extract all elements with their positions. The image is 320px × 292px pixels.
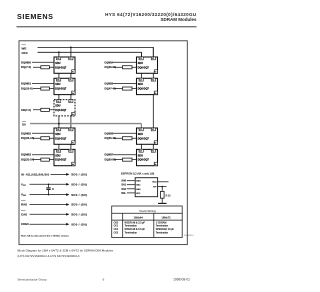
svg-text:DQ(31-24): DQ(31-24) [21,158,34,162]
svg-text:Clock Wiring: Clock Wiring [139,209,156,213]
svg-text:A0 - A11, (A12), BA0, BA1: A0 - A11, (A12), BA0, BA1 [21,173,50,176]
svg-text:DQ0-DQ7: DQ0-DQ7 [55,88,67,91]
label WE [22,44,26,46]
wire DQ with series resistor to U2 [33,88,54,90]
SDRAM chip U7 [137,128,158,145]
svg-text:SDA: SDA [152,181,157,184]
svg-text:Block Diagram for 16M x 64/72: Block Diagram for 16M x 64/72 & 32M x 64… [18,248,114,252]
svg-text:DQMB3: DQMB3 [21,153,32,157]
wire VCC to all SDRAMs [30,183,67,185]
resistor on DQ line of U2 [41,87,50,90]
svg-text:6: 6 [103,278,105,282]
svg-text:Note: CB is only used in the x: Note: CB is only used in the x 72 ECC ve… [21,235,70,238]
svg-text:DQ(15-8): DQ(15-8) [21,87,33,91]
svg-text:DQ0-DQ7: DQ0-DQ7 [138,137,150,140]
ground for R [161,198,163,203]
svg-text:CK2: CK2 [114,229,119,231]
wire CK0 bus (top line 2) [38,52,142,57]
svg-text:C: C [52,187,54,191]
resistor R (WP pull-down) [161,187,163,192]
wire DQM to U3 [32,132,54,134]
svg-text:SD0 / (S0): SD0 / (S0) [71,222,87,226]
svg-text:16Mx64: 16Mx64 [134,215,144,219]
svg-text:SDU: SDU [55,62,60,65]
svg-text:EEPROM 1(2,4)K x only 1(8): EEPROM 1(2,4)K x only 1(8) [121,171,154,175]
svg-text:CB(7-0): CB(7-0) [21,108,31,112]
svg-text:Bx: Bx [72,72,74,74]
svg-text:SDU: SDU [138,83,143,86]
svg-text:SA1: SA1 [121,184,126,187]
wire DQ with series resistor to U9 (ECC, dashed) [33,109,54,111]
svg-text:WP: WP [153,187,157,189]
wire DQ with series resistor to U7 [114,137,137,139]
svg-text:Termination: Termination [125,231,138,234]
svg-text:DQ(7-0): DQ(7-0) [21,65,31,69]
resistor on DQ line of U3 [41,137,50,140]
junction dot on CK0 bus [58,51,60,53]
svg-text:DQ(47-40): DQ(47-40) [105,88,116,91]
wire VSS to all SDRAMs [30,194,67,196]
svg-text:VSS: VSS [21,193,26,198]
wire DQM to U4 [32,154,54,156]
svg-text:SDU: SDU [55,83,60,86]
svg-text:SD0 / (S0): SD0 / (S0) [71,193,87,197]
resistor on DQ line of U5 [123,66,133,69]
svg-text:Bx: Bx [155,72,157,74]
svg-text:Bx: Bx [72,143,74,145]
svg-text:DQ0-DQ7: DQ0-DQ7 [138,159,150,162]
wire DQM to U8 [113,154,137,156]
svg-text:SD0 / (S0): SD0 / (S0) [71,173,87,177]
junction dot on S0 line [58,123,60,125]
wire DQM to U5 [113,61,137,63]
svg-text:DQ0-DQ7: DQ0-DQ7 [55,137,67,140]
svg-text:SDU: SDU [138,154,143,157]
junction dot on WE bus [70,47,72,49]
svg-text:SD0 / (S0): SD0 / (S0) [71,203,87,207]
wire DQM to U2 [32,83,54,85]
svg-text:DQMB4: DQMB4 [105,61,114,64]
wire DQ with series resistor to U8 [114,159,137,161]
svg-text:Bx: Bx [72,164,74,166]
wire vertical right column pin chain 2 [152,47,154,150]
wire RAS to all SDRAMs [30,204,67,206]
wire DQM to U6 [113,83,137,85]
SDRAM chip U1 [54,57,75,74]
svg-text:Bx: Bx [72,93,74,95]
svg-text:CAS: CAS [21,212,27,216]
svg-text:SA0: SA0 [121,180,126,183]
svg-text:SCL: SCL [121,192,126,195]
wire DQ with series resistor to U1 [33,66,54,68]
svg-text:CK0: CK0 [114,222,119,224]
svg-text:RAS: RAS [21,203,27,207]
svg-text:DQMB0: DQMB0 [21,60,32,64]
EEPROM U10 [135,178,157,197]
wire DQ with series resistor to U4 [33,159,54,161]
svg-text:WE: WE [22,46,27,50]
svg-text:SDU: SDU [55,105,60,108]
svg-text:Bx: Bx [155,143,157,145]
svg-text:SDU: SDU [138,133,143,136]
label CAS [21,209,26,211]
svg-text:DQ0-DQ7: DQ0-DQ7 [55,159,67,162]
resistor on DQ line of U4 [41,158,50,161]
svg-text:Bx: Bx [155,93,157,95]
wire CAS to all SDRAMs [30,213,67,215]
svg-text:SDRAM Modules: SDRAM Modules [161,17,197,22]
svg-text:SIEMENS: SIEMENS [17,12,54,21]
wire DQ with series resistor to U3 [33,137,54,139]
svg-text:DQ0-DQ7: DQ0-DQ7 [138,88,150,91]
svg-text:Semiconductor Group: Semiconductor Group [18,278,48,282]
svg-text:Bx: Bx [155,164,157,166]
svg-text:S0: S0 [22,123,26,127]
svg-text:SD0 / (S0): SD0 / (S0) [71,183,87,187]
junction dot C on VCC [48,184,50,186]
svg-text:CKE0: CKE0 [21,222,29,226]
svg-text:CK0: CK0 [22,51,28,55]
svg-text:16Mx72: 16Mx72 [161,215,171,219]
wire vertical left column pin chain 2 [70,47,72,150]
svg-text:R 10: R 10 [166,195,172,197]
svg-text:DQMB6: DQMB6 [105,132,114,135]
svg-text:DQ0-DQ7: DQ0-DQ7 [138,66,150,69]
resistor on DQ line of U7 [123,137,133,140]
resistor on DQ line of U8 [123,158,133,161]
label S0 [22,121,26,123]
wire DQ with series resistor to U6 [114,88,137,90]
wire vertical left column pin chain 1 [58,52,60,150]
svg-text:SDU: SDU [55,133,60,136]
junction dot WP [161,186,163,188]
SDRAM chip U8 [137,149,158,166]
wire DQM to U7 [113,132,137,134]
svg-text:DQMB5: DQMB5 [105,83,114,86]
svg-text:DQ(39-32): DQ(39-32) [105,66,116,69]
svg-text:LPD01410: LPD01410 [184,235,194,237]
resistor on DQ line of U1 [41,66,50,69]
svg-text:CK1: CK1 [114,226,119,228]
wire WE bus (top line 1) [38,47,154,57]
SDRAM chip U5 [137,57,158,74]
wire DQ with series resistor to U5 [114,66,137,68]
svg-text:SD0 / (S0): SD0 / (S0) [71,213,87,217]
resistor on DQ line of U6 [123,87,133,90]
svg-text:(HYS 64/72V16200GU & HYS 64/72: (HYS 64/72V16200GU & HYS 64/72V32200GU) [18,254,80,258]
label RAS [21,200,26,202]
svg-text:DQ(63-56): DQ(63-56) [105,159,116,162]
SDRAM chip U4 [54,149,75,166]
svg-text:DQ0-DQ7: DQ0-DQ7 [55,66,67,69]
svg-text:Termination: Termination [156,231,169,234]
svg-text:SCL: SCL [136,193,141,195]
svg-text:1998-08-01: 1998-08-01 [173,278,190,282]
SDRAM chip U2 [54,78,75,95]
svg-text:DQ(55-48): DQ(55-48) [105,137,116,140]
svg-text:CK3: CK3 [114,232,119,234]
svg-text:DQ(23-16): DQ(23-16) [21,136,34,140]
SDRAM chip U3 [54,128,75,145]
capacitor C (decoupling between VCC and VSS) [46,184,54,194]
clock wiring table [112,206,183,238]
figure border frame [19,41,187,245]
wire address bus to all SDRAMs [51,173,67,175]
SDRAM chip U9 (ECC, dashed) [54,100,75,117]
svg-text:DQMB7: DQMB7 [105,154,114,157]
wire CKE0 to all SDRAMs [30,223,67,225]
svg-text:DQMB1: DQMB1 [21,82,32,86]
SDRAM chip U6 [137,78,158,95]
resistor on DQ line of U9 (ECC, dashed) [41,108,50,111]
wire vertical right column pin chain 1 [140,52,142,95]
junction dot C on VSS [48,194,50,196]
wire DQM to U1 [32,61,54,63]
svg-text:SDU: SDU [55,154,60,157]
header rule [17,26,197,28]
svg-text:Bx: Bx [72,114,74,116]
svg-text:VCC: VCC [21,182,27,187]
wire S0 select line (gray) [30,123,141,125]
svg-text:DQ0-DQ7: DQ0-DQ7 [55,109,67,112]
svg-text:SA2: SA2 [121,188,126,191]
svg-text:DQMB2: DQMB2 [21,131,32,135]
svg-text:SDU: SDU [138,62,143,65]
